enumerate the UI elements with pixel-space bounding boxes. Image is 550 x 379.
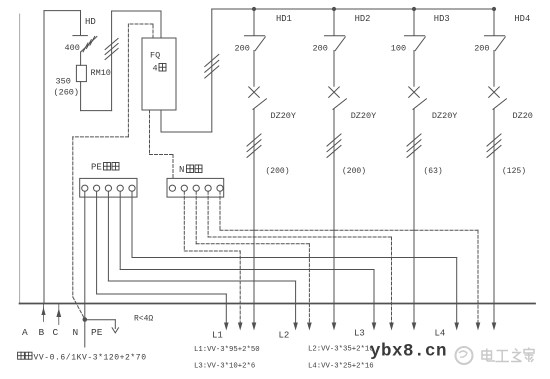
wire: feeder down to load [253, 109, 255, 322]
top distribution bus [212, 8, 494, 10]
PE terminal at x120.2 [117, 185, 123, 191]
svg-text:100: 100 [391, 44, 406, 54]
N wire to L4 [220, 191, 478, 322]
svg-text:L3: L3 [354, 329, 365, 339]
breaker blade of HD1 [253, 99, 266, 110]
feeder switch HD3 contact bar [405, 35, 425, 37]
svg-text:C: C [53, 327, 59, 338]
cable marks on feeder HD3 [407, 134, 421, 146]
dashed PE tap from FQ box top [73, 24, 153, 319]
wire [493, 51, 495, 87]
svg-text:PE: PE [91, 327, 103, 338]
svg-text:(63): (63) [424, 167, 443, 176]
wire: FQ bottom down [160, 110, 162, 132]
cable marks on riser x112 [105, 39, 118, 50]
load arrow of HD2 [332, 323, 337, 331]
PE wire to L4 [131, 191, 133, 257]
wire: bond to earth electrode [85, 319, 116, 321]
wire: drop into main switch HD [80, 11, 82, 35]
load arrow of HD4 [492, 323, 497, 331]
svg-text:B: B [39, 327, 45, 338]
PE terminal at x84.8 [82, 185, 88, 191]
svg-text:350: 350 [56, 77, 71, 87]
wire [333, 51, 335, 87]
feeder switch HD2 blade [335, 37, 345, 51]
N terminal at x184.3 [181, 185, 187, 191]
svg-text:A: A [22, 327, 28, 338]
svg-text:(260): (260) [54, 88, 80, 98]
wire: FQ bottom to main riser [161, 131, 212, 133]
wire: feeder down to load [333, 109, 335, 322]
feeder switch HD1 blade [255, 37, 265, 51]
svg-text:RM10: RM10 [91, 68, 111, 78]
svg-text:N: N [73, 327, 79, 338]
feeder switch HD3 blade [415, 37, 425, 51]
N wire to L2 [196, 191, 309, 322]
svg-text:HD4: HD4 [514, 14, 530, 24]
breaker blade of HD4 [493, 99, 506, 110]
svg-text:L1:VV-3*95+2*50: L1:VV-3*95+2*50 [194, 346, 260, 354]
wire: switch to fuse [80, 52, 82, 65]
wire: down into FQ box [160, 11, 162, 38]
svg-text:FQ: FQ [150, 51, 160, 61]
N terminal at x196.2 [193, 185, 199, 191]
breaker contact X of HD2 [329, 87, 340, 98]
earth arrow [112, 328, 115, 333]
phase C arrow [58, 304, 60, 325]
svg-text:4: 4 [153, 64, 158, 74]
N busbar [167, 178, 224, 197]
wire: main riser up to bus [211, 9, 213, 132]
N terminal at x172.4 [169, 185, 175, 191]
cable marks on main riser [205, 55, 219, 67]
svg-text:DZ20Y: DZ20Y [271, 111, 297, 121]
svg-text:(125): (125) [502, 167, 526, 176]
svg-text:DZ20: DZ20 [513, 111, 533, 121]
wire: fuse down [80, 82, 82, 111]
svg-text:DZ20Y: DZ20Y [351, 111, 377, 121]
junction node on bus for HD4 [492, 7, 496, 11]
main switch HD contact bar [73, 35, 88, 37]
PE wire to L3 [119, 191, 121, 269]
junction node on bus for HD3 [412, 7, 416, 11]
feeder switch HD2 drop [333, 9, 335, 35]
PE terminal at x96.6 [94, 185, 100, 191]
N-PE bond node [83, 317, 88, 322]
fuse RM10 body [76, 65, 86, 81]
svg-text:HD2: HD2 [355, 14, 371, 24]
wire: bottom of fuse leg to riser [81, 110, 112, 112]
watermark 电工之家 [482, 348, 534, 363]
N terminal at x208.1 [205, 185, 211, 191]
svg-text:HD1: HD1 [276, 14, 292, 24]
svg-text:L4:VV-3*25+2*16: L4:VV-3*25+2*16 [308, 362, 374, 370]
svg-text:400: 400 [65, 43, 80, 53]
wire: horizontal into FQ top [112, 10, 161, 12]
PE wire to N-PE bond [84, 191, 86, 317]
main switch HD blade [81, 37, 97, 53]
load arrow of HD3 [412, 323, 417, 331]
wire: top-left horizontal to HD switch [44, 10, 81, 12]
svg-text:L2: L2 [279, 331, 290, 341]
breaker contact X of HD3 [409, 87, 420, 98]
svg-text:L1: L1 [212, 331, 223, 341]
frame bottom line [20, 303, 535, 305]
svg-text:200: 200 [235, 44, 250, 54]
svg-text:PE: PE [91, 163, 102, 173]
breaker contact X of HD4 [489, 87, 500, 98]
svg-text:ybx8.cn: ybx8.cn [370, 342, 447, 362]
feeder switch HD4 drop [493, 9, 495, 35]
PE terminal at x132 [129, 185, 135, 191]
cable marks on feeder HD1 [247, 134, 261, 146]
junction node on bus for HD1 [252, 7, 256, 11]
feeder switch HD1 contact bar [245, 35, 265, 37]
wire [253, 51, 255, 87]
svg-text:L3:VV-3*10+2*6: L3:VV-3*10+2*6 [194, 362, 255, 370]
N wire to L3 [208, 191, 391, 322]
wire: grey margin line left [19, 14, 21, 304]
FQ box (4 CTs) [142, 38, 176, 110]
PE wire to L1 [96, 191, 98, 294]
svg-text:DZ20Y: DZ20Y [432, 111, 458, 121]
wire: incoming N conductor [84, 320, 86, 348]
breaker blade of HD2 [333, 99, 346, 110]
feeder switch HD4 contact bar [485, 35, 505, 37]
feeder switch HD3 drop [413, 9, 415, 35]
wire [413, 51, 415, 87]
phase B arrow [43, 304, 45, 322]
svg-text:VV-0.6/1KV-3*120+2*70: VV-0.6/1KV-3*120+2*70 [34, 353, 147, 362]
wire: feeder down to load [413, 109, 415, 322]
svg-text:HD3: HD3 [434, 14, 450, 24]
svg-text:200: 200 [474, 44, 489, 54]
svg-text:(200): (200) [266, 167, 290, 176]
junction node on bus for HD2 [332, 7, 336, 11]
wire: riser up at x112 [111, 11, 113, 111]
wire: left frame vertical [43, 11, 45, 304]
PE terminal at x108.4 [105, 185, 111, 191]
cable marks on feeder HD2 [327, 134, 341, 146]
feeder switch HD1 drop [253, 9, 255, 35]
feeder switch HD2 contact bar [325, 35, 345, 37]
load arrow of HD1 [252, 323, 257, 331]
svg-text:HD: HD [85, 17, 96, 27]
cable marks on feeder HD4 [487, 134, 501, 146]
watermark logo circle [456, 347, 473, 364]
wire: feeder down to load [493, 109, 495, 322]
PE busbar [80, 178, 137, 197]
svg-text:R<4Ω: R<4Ω [134, 315, 153, 324]
main switch HD 3-pole ticks [83, 43, 88, 52]
label main cable spec [18, 352, 25, 359]
dashed N tap from FQ box bottom [150, 110, 174, 178]
svg-text:L4: L4 [435, 329, 446, 339]
svg-text:N: N [179, 165, 184, 175]
svg-text:(200): (200) [342, 167, 366, 176]
PE wire to L2 [107, 191, 109, 281]
svg-text:200: 200 [313, 44, 328, 54]
N terminal at x220 [217, 185, 223, 191]
N wire to L1 [184, 191, 240, 322]
breaker blade of HD3 [413, 99, 426, 110]
svg-text:L2:VV-3*35+2*16: L2:VV-3*35+2*16 [308, 346, 374, 354]
breaker contact X of HD1 [249, 87, 260, 98]
feeder switch HD4 blade [495, 37, 505, 51]
